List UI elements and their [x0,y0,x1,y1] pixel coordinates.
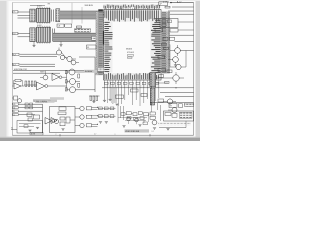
driver row 1 wire in [75,108,80,110]
driver transistor QD1 [80,106,84,110]
wire rmid2 [160,91,194,93]
wire rmid3 [165,96,194,98]
IC bottom fanout wires [105,80,159,106]
bcr mesh wires [118,113,149,122]
RN2 ground [92,101,95,103]
svg-text:IC1001: IC1001 [127,52,135,54]
transistor Q8 [43,75,48,80]
svg-text:B1: B1 [87,47,89,49]
driver stage bias resistors [65,71,67,92]
emitter resistor ER1 [78,74,80,78]
driver row 1 wire out a [92,106,98,108]
wire to border tr2 [172,6,194,8]
cluster wire c1 [62,53,67,60]
oscillator box outline [50,107,76,133]
capacitor C4 [53,29,55,42]
bus wire h1 [13,70,104,72]
wire mr3 [180,50,193,52]
wire rm2a [20,63,56,65]
resistor network RN2 [90,96,98,101]
comp box X3 [155,28,163,31]
bottom margin blend [0,137,200,138]
delay line DL1 pins [37,7,49,24]
driver row 3 wire out a [92,123,98,125]
svg-text:SC: SC [11,128,13,130]
svg-text:R-Y: R-Y [13,54,16,56]
IC U1001 left pin-name ring [104,22,112,72]
driver row 2 wire out b [92,117,98,119]
br faint label row [158,122,191,125]
bl wire row2 [19,107,43,109]
bcr transistor QB1 [127,117,131,121]
wire mr vertical [185,51,187,68]
bcr box i [143,122,148,125]
ground bl1 [28,130,31,132]
wire P1 to IC [103,14,104,16]
box X2 inner a [162,20,166,23]
br vertical wires [152,103,161,121]
video sync label bar [125,129,150,132]
IC U1001 top pin-name ring [105,10,159,22]
bl loop inner comp [24,125,28,128]
comp box f5 [131,89,139,92]
bl loop wire in [11,129,17,131]
bl row1 label [13,103,19,105]
br ground a [153,128,156,130]
IC U1001 right pin-name ring [151,18,161,73]
IC U1001 right ring haze [150,18,161,73]
bl wire row1 [19,103,43,105]
transistor Q13 [167,99,172,104]
br bottom wire [159,127,186,129]
connector J1 pins [30,9,35,22]
osc box b [66,117,70,123]
border frame top [12,2,193,4]
output transistor Q10 [70,79,76,85]
wire input a1 [18,11,30,13]
br ground b [166,128,169,130]
wire analog right top [95,71,104,73]
bus wire h2 [13,72,60,74]
wire rm1a [20,53,58,55]
box X2 inner c [162,24,166,27]
tiny note block [98,68,105,71]
bl wire row3 [19,110,43,112]
transistor Q5 [175,48,181,54]
svg-text:B-Y: B-Y [13,64,16,66]
driver box BD2 [86,115,91,118]
bl row1 comp b [30,103,33,105]
wire to border tr3 [168,10,194,12]
paper background [0,0,200,141]
crystal Y1 [58,112,66,115]
transistor Q4 [71,60,76,65]
rc row 1 wire [98,107,116,109]
bl wire row4 [19,114,36,116]
driver row 2 wire in [75,116,80,118]
wire input a3 [18,17,30,19]
driver vertical rail [66,70,68,91]
wire input a2 [18,14,30,16]
right page margin [196,0,201,141]
rc network row 1 [99,107,114,110]
osc top box [59,107,66,110]
osc box a [60,117,65,120]
IC U1001 top pins [105,6,159,10]
wire x4 right [178,29,194,31]
resistor rmid6 [165,82,170,84]
small box row b [170,37,175,40]
cable W1 top edge [60,10,99,12]
clamp label bar [33,99,57,102]
IC U1001 left pin stubs [97,13,104,74]
bcr box c [133,113,137,116]
osc transistor Q15 [54,119,58,123]
IC U1001 left ring haze [104,22,112,73]
comp box rmid5 [159,75,164,78]
capacitor C1 [51,10,53,22]
driver transistor QD2 [80,115,84,119]
wire input b2 [18,36,30,38]
ground Q6 [174,65,177,67]
bl row3 label [13,110,19,112]
wire row label rm2 [13,63,19,65]
osc op-amp A6 [51,118,57,124]
br left cluster box b [150,116,155,119]
left margin soft edge [7,0,9,141]
bcr transistor QB2 [135,118,139,122]
sub bus stub [81,7,83,24]
br transistor Q16 [172,108,177,113]
second label bar [50,97,64,100]
ground under assembly2 [60,42,62,45]
bcr box a [121,113,125,116]
resistor R1 [77,26,82,28]
wire A2 out [48,85,67,87]
svg-text:NOTE: NOTE [31,134,35,136]
cluster wire c3 [72,58,76,60]
delay line DL2 pins [37,26,49,44]
comp box mr5 [158,56,165,59]
driver row 1 wire out b [92,109,98,111]
connector J2 shell [30,28,36,42]
input label IN2 [13,32,18,34]
ground f2 [109,99,112,101]
transistor Q2 [60,55,64,59]
small box row a [163,37,168,40]
bcr box b [126,112,131,115]
bl row1 comp a [25,103,28,105]
emitter resistor ER2 [78,83,80,87]
shaded column under IC [111,87,117,103]
bcr vertical wires [118,106,123,123]
bcr box e [144,113,149,116]
cable W2 inner line 3 [53,38,102,40]
cable W1 core line [60,14,99,16]
box X2 inner b [168,20,172,23]
bl cluster box a [27,113,32,116]
bcr ground a [122,126,125,128]
driver row 3 wire out b [92,126,98,128]
IC U1001 center mark a [128,55,134,57]
svg-text:8–2: 8–2 [152,131,155,133]
svg-text:4–7: 4–7 [94,134,97,136]
cluster wire c2 [65,57,67,59]
feedback wire A1 [14,80,16,82]
wire A3 out [62,76,67,78]
bl outline loop [17,121,43,134]
IC U1001 bottom pin-name ring [105,73,159,79]
rc ground a [99,122,102,124]
capacitor C5 lead [78,28,80,31]
capacitor C2 [53,10,55,22]
cable W2 shield band [53,33,102,41]
cable W2 top edge [53,32,102,34]
comp box mr6 [158,69,166,72]
transistor Q12 [173,75,179,81]
delay line DL1 body [37,8,51,22]
IC U1001 center mark b [128,57,133,58]
clamp input box [14,96,18,100]
br top wire [150,102,194,104]
comp box rmid4 [158,99,164,102]
wire rm2b [20,65,56,67]
svg-text:SUB BUS: SUB BUS [85,5,94,7]
wire mr4 [169,45,171,68]
bcr ground b [138,125,141,127]
cable W1 bottom edge [60,18,99,20]
connector P2 shell [102,31,107,45]
driver row 1 junction [97,107,98,108]
bl row2 comp a [25,107,28,109]
svg-text:A–17: A–17 [177,0,181,3]
comp box mr7 [167,70,172,73]
svg-text:HD: HD [13,104,15,106]
br comp b [179,104,183,108]
resistor row under IC [105,82,159,84]
bottom page margin [0,138,200,141]
wire input b1 [18,33,30,35]
cable W1 inner line 2 [60,12,99,14]
op-amp A3 [52,74,60,81]
bl loop inner wire a [19,123,41,125]
bl cluster box b [34,115,40,119]
svg-text:BL: BL [13,111,15,113]
IC U1001 outline [104,10,161,80]
delay line DL2 body [37,27,51,42]
ground f1 [103,100,106,102]
junction dot rmid [175,87,176,88]
svg-text:VIDEO SYNC GEN: VIDEO SYNC GEN [125,131,140,133]
top page edge [0,0,200,1]
IC U1001 bottom ring haze [104,73,161,80]
ground bl2 [36,127,39,129]
wire mr2 [175,40,194,42]
svg-text:CP: CP [160,4,162,6]
br transistor Q17 [152,120,157,125]
bottom title box [30,132,43,135]
test box TB1 [57,24,64,27]
output transistor Q9 [69,69,75,75]
connector P1 shell [98,9,103,21]
svg-text:VD: VD [13,107,15,109]
pin label block PL2 [92,36,103,40]
resistor bank RB1 [25,81,36,87]
br box a [169,103,177,107]
test box TB2 [65,24,72,27]
comp box X4 [170,29,178,32]
bcr box d [138,112,142,115]
rc network row 2 [99,115,114,118]
svg-text:CL: CL [13,114,15,116]
driver row 3 junction [97,124,98,125]
br big box outline [164,111,194,121]
capacitor C3 [51,29,53,42]
bcr box g [134,118,139,121]
resistor row labels [104,85,160,87]
input label IN1 [13,11,18,13]
svg-text:DL102: DL102 [37,25,42,27]
driver box BD3 [86,124,91,127]
sync logic label bar [35,100,55,102]
sub bus boundary line [71,3,73,24]
driver transistor QD3 [80,123,84,127]
svg-text:SYNC CONTROL: SYNC CONTROL [36,101,48,103]
pin label block PL1 [75,29,91,33]
bl row2 label [13,107,19,109]
resistor bank bus wire [24,84,37,86]
ground under DL2 [33,42,35,45]
transistor Q3 [67,56,72,61]
border tick mark a [59,134,61,136]
comp box f6 [141,94,147,97]
IC U1001 top ring haze [104,10,161,22]
wire row label rm1 [13,53,19,55]
svg-text:Y2: Y2 [13,33,15,35]
osc box c [60,122,65,126]
comp box f4 [116,95,124,98]
cluster vertical c6 [94,57,96,69]
coil L1 body [56,9,60,22]
cable W1 shield band [60,11,99,19]
IC U1001 left outside labels [96,12,103,76]
svg-text:M50436: M50436 [126,49,132,51]
bcr box h [140,117,144,119]
wire rmid7 [156,82,168,84]
transistor Q6 [173,57,179,63]
clamp input wire [12,97,13,99]
box X2 outline [160,19,178,28]
op-amp A1 [14,83,21,89]
cluster wire c5 [79,56,95,58]
border frame bottom [12,134,193,136]
rc row 2 wire [98,115,116,117]
border frame left [11,3,13,136]
terminal dot tr1 [170,2,171,3]
border tick mark b [149,134,151,136]
cable W1 inner line 3 [60,16,99,18]
svg-text:TP1: TP1 [48,4,51,6]
connector J2 pins [30,28,35,41]
bl vertical rail [42,104,44,133]
box X1 [159,2,168,6]
wire rm1b [20,55,58,57]
resistor R2 [165,6,170,8]
analog right rail [94,69,96,92]
driver row 3 wire in [75,125,80,127]
cable W2 core line [53,36,102,38]
bl row2 comp b [30,107,33,109]
output transistor Q11 [70,87,76,93]
wire to border tr4 [170,13,194,15]
br box drop wire [185,121,187,128]
svg-text:DL101: DL101 [37,5,42,7]
clamp transistor Q14 [17,99,21,103]
bias box BB1 [87,45,97,49]
connector CN4 body [150,88,154,105]
test point wire top [30,5,45,7]
bl loop inner wire b [19,126,34,128]
bcr box f [127,117,131,119]
connector J1 shell [30,9,36,22]
transistor Q1 [57,50,62,55]
IC U1001 right pin stubs [161,13,170,72]
border frame right [193,3,195,136]
feedback resistor RF1 [15,79,21,81]
br big box label block [180,112,193,118]
wire Q12 up [175,72,177,75]
cable W2 bottom edge [53,40,102,42]
br big box inner b [172,113,177,117]
resistor R4 [164,48,169,50]
delay label bar [84,70,97,73]
IC U1001 right outside labels [161,12,169,74]
br big box inner a [165,113,171,116]
br left cluster box a [150,112,155,115]
driver box BD1 [86,107,91,110]
wire to border tr1 [170,2,194,4]
osc wire r [70,119,75,121]
ground f3 [115,104,118,106]
bcr wire mesh 2 [125,118,146,125]
RN2 bus [89,95,100,97]
svg-text:Y1: Y1 [13,12,15,14]
rc ground b [105,122,108,124]
IC U1001 top outside labels [103,4,161,9]
cable W2 inner line 2 [53,34,102,36]
br label box c [185,103,194,106]
wire x2 right [178,21,194,23]
op-amp A2 [37,82,46,90]
transistor Q7 [176,64,181,69]
bl row4 label [13,114,19,116]
wire mr1 [170,34,194,36]
driver row 2 wire out a [92,115,98,117]
left page margin [0,0,7,141]
driver row 2 junction [97,115,98,116]
osc ground [61,129,64,131]
cluster wire c4 [76,62,79,64]
resistor R3 [162,44,167,46]
bl cluster box c [28,118,32,121]
connector CN3 body [150,73,156,87]
wire rmid1 [102,87,194,89]
op-amp A5 [45,118,52,125]
